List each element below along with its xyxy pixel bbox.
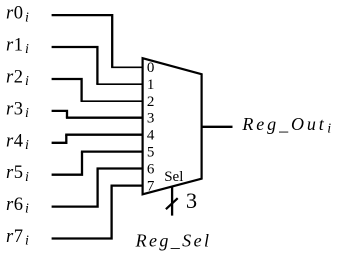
svg-text:r1i: r1i xyxy=(6,36,29,58)
svg-text:3: 3 xyxy=(147,111,155,127)
svg-text:5: 5 xyxy=(147,144,155,160)
svg-text:Reg_Outi: Reg_Outi xyxy=(241,114,331,137)
select wire xyxy=(171,186,173,215)
wire r6 xyxy=(52,169,98,207)
wire r3 xyxy=(52,111,67,118)
svg-text:r6i: r6i xyxy=(6,195,29,217)
svg-text:3: 3 xyxy=(186,188,197,213)
multiplexer body U1 xyxy=(143,58,202,194)
pin stub 3 xyxy=(66,117,144,119)
wire r2 xyxy=(52,79,82,101)
svg-text:r5i: r5i xyxy=(6,163,29,185)
wire r0 xyxy=(52,15,113,67)
pin stub 5 xyxy=(81,150,144,152)
pin stub 1 xyxy=(96,83,143,85)
svg-text:2: 2 xyxy=(147,94,155,110)
wire r4 xyxy=(52,135,67,143)
svg-text:r4i: r4i xyxy=(6,131,29,153)
pin stub 4 xyxy=(65,134,144,136)
svg-text:1: 1 xyxy=(147,77,155,93)
svg-text:r7i: r7i xyxy=(6,227,29,249)
wire r5 xyxy=(52,152,82,175)
svg-text:r2i: r2i xyxy=(6,68,29,90)
wire r1 xyxy=(52,47,98,84)
bus width slash xyxy=(166,198,178,209)
svg-text:6: 6 xyxy=(147,161,155,177)
svg-text:r3i: r3i xyxy=(6,99,29,121)
pin stub 6 xyxy=(97,167,144,169)
svg-text:Reg_Sel: Reg_Sel xyxy=(135,230,212,250)
svg-text:r0i: r0i xyxy=(6,4,29,26)
pin stub 7 xyxy=(111,184,144,186)
wire r7 xyxy=(52,186,112,239)
svg-text:4: 4 xyxy=(147,128,155,144)
svg-text:Sel: Sel xyxy=(164,169,183,185)
svg-text:7: 7 xyxy=(147,178,155,194)
svg-text:0: 0 xyxy=(147,60,155,76)
output wire xyxy=(202,126,233,128)
pin stub 0 xyxy=(111,66,144,68)
pin stub 2 xyxy=(81,100,144,102)
